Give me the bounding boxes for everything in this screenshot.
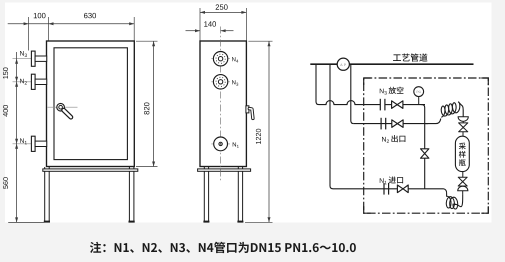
boundary box solid corners <box>364 78 489 213</box>
valve above sample bottle <box>459 123 468 132</box>
front view: left leg <box>44 167 46 222</box>
side view: cabinet body <box>200 41 246 167</box>
label N1 on inlet <box>380 178 387 184</box>
valve below sample bottle <box>458 177 467 186</box>
cooler coil bottom <box>444 189 447 197</box>
label 出口 <box>391 135 405 142</box>
extension lines 250 <box>199 8 201 41</box>
front view: right foot <box>129 221 135 223</box>
front view: nozzle N3 extension line <box>13 58 32 60</box>
side view: stand top rail <box>198 169 251 171</box>
flange pair N1 <box>383 183 385 195</box>
front view: label N3 <box>20 51 27 57</box>
label N3 on vent <box>380 89 387 95</box>
side view: left foot <box>203 221 209 223</box>
front view: nozzle N1 pipe <box>35 141 47 146</box>
outlet tap wire <box>351 64 354 123</box>
flange pair N2 <box>380 118 382 130</box>
stem below bottle <box>462 172 464 177</box>
front view: door handle lever <box>64 110 71 117</box>
side view: handle base <box>246 106 249 113</box>
vent line in box <box>385 104 392 106</box>
extension line x=134 top <box>133 17 135 41</box>
ground extension line <box>8 221 44 223</box>
label N2 on outlet <box>382 137 389 143</box>
side view: vertical centerline <box>220 27 222 183</box>
vent header wire with crossover humps <box>319 101 380 105</box>
side view: nozzle circle N4 <box>213 52 227 66</box>
dimension 630 label <box>84 13 96 18</box>
bypass valve vertical <box>421 149 429 158</box>
side view: nozzle circle N4 crosshair <box>211 58 230 60</box>
bottle text 瓶 <box>459 159 466 166</box>
bottle text 样 <box>459 151 466 158</box>
dimension 100 label <box>34 13 46 18</box>
side view: nozzle circle N1 crosshair <box>211 143 230 145</box>
front view: nozzle N1 extension line <box>13 143 32 145</box>
front view: nozzle N2 flange <box>31 74 35 89</box>
side view: label N1 <box>233 142 239 147</box>
dimension chain line left <box>16 52 18 222</box>
front view: nozzle N2 pipe <box>35 79 47 84</box>
side view: nozzle circle N3 <box>213 75 227 89</box>
dimension 820 line <box>153 41 155 166</box>
dimension 820 label <box>144 102 149 114</box>
outlet line in box <box>354 123 392 125</box>
front view: nozzle N3 flange <box>31 51 35 66</box>
front view: nozzle N3 pipe <box>35 56 47 61</box>
front view: label N2 <box>20 79 27 85</box>
side view: nozzle circle N3 crosshair <box>211 81 230 83</box>
side view: right foot <box>237 221 243 223</box>
dimension 820 extension lines <box>136 40 158 42</box>
cooler coil top <box>441 102 463 118</box>
front view: stand top rail <box>43 169 138 171</box>
wire to cooler coil <box>425 119 441 124</box>
side view: nozzle circle N1 <box>214 137 228 151</box>
bottle text 采 <box>459 143 466 150</box>
front view: nozzle N1 flange <box>31 136 35 151</box>
cabinet boundary dashed box <box>364 78 489 213</box>
funnel below bottle <box>458 186 468 191</box>
front view: nozzle N2 extension line <box>13 81 32 83</box>
dimension 1220 line <box>268 41 270 222</box>
dimension 250 line <box>200 11 246 13</box>
instrument circle on process line <box>337 58 349 70</box>
dimension 560 label <box>3 177 8 188</box>
side view: left leg <box>203 167 205 222</box>
side view: label N4 <box>232 57 238 62</box>
side view: label N3 <box>232 80 238 85</box>
note text <box>90 242 356 253</box>
front view: cabinet outer body <box>47 41 135 167</box>
dimension 150 label <box>3 67 8 78</box>
valve on vent line <box>392 101 403 109</box>
front view: door handle boss <box>57 103 65 111</box>
front view: left foot <box>44 221 50 223</box>
dimension 1220 label <box>256 129 261 144</box>
inlet tap wire <box>330 64 333 189</box>
front view: door handle centerline <box>48 106 78 108</box>
label 进口 <box>389 176 403 183</box>
side view: handle lever <box>249 109 253 119</box>
inlet line <box>333 188 397 190</box>
dimension 140 label <box>204 21 216 26</box>
dimension line top <box>8 23 135 25</box>
valve on outlet line <box>392 120 403 128</box>
dimension 140 line <box>186 30 201 32</box>
funnel above sample bottle <box>458 117 468 122</box>
flange pair N3 <box>379 99 381 111</box>
dimension 250 label <box>216 4 228 9</box>
tap wire to vent header <box>316 64 319 104</box>
dimension 400 label <box>3 105 8 117</box>
bypass wire down to inlet <box>424 124 426 189</box>
label 工艺管道 <box>393 53 427 61</box>
dimension 1220 extension lines <box>248 40 272 42</box>
process pipe line <box>310 63 473 65</box>
extension line x=49 <box>48 17 50 41</box>
front view: right leg <box>128 167 130 222</box>
pressure gauge circle <box>414 87 424 97</box>
wire vent down-leg to junction <box>421 105 425 124</box>
front view: label N1 <box>20 138 27 144</box>
extension line x=29 <box>28 17 30 51</box>
front view: door panel <box>54 48 127 160</box>
pressure gauge stem <box>418 96 420 104</box>
label 放空 <box>389 87 404 94</box>
sample bottle 采样瓶 <box>455 136 469 171</box>
valve on inlet line <box>397 185 408 193</box>
side view: right leg <box>237 167 239 222</box>
